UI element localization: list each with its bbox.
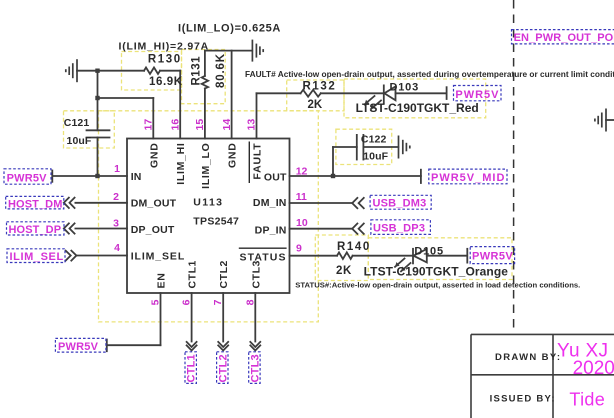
svg-text:7: 7 (212, 299, 224, 305)
svg-text:FAULT# Active-low open-drain o: FAULT# Active-low open-drain output, ass… (245, 69, 614, 79)
svg-text:10uF: 10uF (67, 135, 92, 147)
svg-text:2K: 2K (336, 265, 352, 277)
svg-text:ILIM_SEL: ILIM_SEL (131, 251, 185, 263)
svg-text:2: 2 (113, 191, 119, 203)
svg-text:13: 13 (246, 119, 258, 131)
svg-text:EN: EN (156, 273, 168, 289)
svg-text:DP_IN: DP_IN (255, 224, 287, 236)
svg-text:PWR5V: PWR5V (472, 251, 513, 263)
svg-text:ILIM_HI: ILIM_HI (175, 143, 187, 185)
svg-text:D105: D105 (414, 246, 444, 258)
svg-text:6: 6 (181, 299, 193, 305)
svg-text:Tide: Tide (569, 390, 605, 410)
svg-text:CTL1: CTL1 (186, 354, 198, 382)
svg-text:PWR5V: PWR5V (7, 173, 48, 185)
svg-text:4: 4 (114, 242, 120, 254)
svg-text:CTL2: CTL2 (218, 260, 230, 288)
svg-text:R132: R132 (303, 81, 337, 93)
svg-text:USB_DM3: USB_DM3 (373, 198, 427, 210)
svg-text:CTL1: CTL1 (187, 260, 199, 288)
svg-text:17: 17 (143, 119, 155, 131)
svg-text:USB_DP3: USB_DP3 (373, 223, 425, 235)
svg-text:GND: GND (227, 143, 239, 168)
svg-text:ILIM_SEL: ILIM_SEL (10, 251, 64, 263)
svg-text:1: 1 (114, 163, 120, 175)
svg-text:2K: 2K (308, 99, 323, 111)
svg-text:LTST-C190TGKT_Orange: LTST-C190TGKT_Orange (364, 265, 509, 279)
svg-text:DP_OUT: DP_OUT (131, 224, 175, 236)
svg-text:CTL2: CTL2 (217, 354, 229, 382)
svg-text:16: 16 (169, 119, 181, 131)
svg-text:HOST_DP: HOST_DP (9, 224, 62, 236)
svg-text:OUT: OUT (264, 172, 287, 184)
svg-text:DRAWN BY:: DRAWN BY: (495, 352, 561, 363)
svg-text:12: 12 (296, 166, 308, 178)
svg-text:15: 15 (194, 119, 206, 131)
svg-text:I(LIM_HI)=2.97A: I(LIM_HI)=2.97A (119, 41, 209, 53)
svg-text:5: 5 (150, 299, 162, 305)
svg-text:IN: IN (131, 171, 142, 183)
svg-text:CTL3: CTL3 (249, 354, 261, 382)
svg-text:STATUS#:Active-low open-drain: STATUS#:Active-low open-drain output, as… (295, 281, 580, 290)
svg-text:EN_PWR_OUT_PORT: EN_PWR_OUT_PORT (514, 32, 614, 44)
svg-text:I(LIM_LO)=0.625A: I(LIM_LO)=0.625A (178, 23, 281, 35)
svg-text:C122: C122 (361, 134, 387, 146)
svg-text:U113: U113 (193, 197, 223, 209)
svg-text:16.9K: 16.9K (149, 76, 183, 88)
svg-text:R130: R130 (148, 54, 182, 66)
svg-text:80.6K: 80.6K (215, 53, 227, 88)
svg-text:D103: D103 (390, 82, 420, 94)
svg-text:R140: R140 (337, 241, 371, 253)
svg-text:9: 9 (296, 243, 302, 255)
svg-text:HOST_DM: HOST_DM (8, 199, 62, 211)
svg-text:R131: R131 (191, 56, 203, 86)
svg-text:11: 11 (296, 191, 307, 203)
svg-text:2020: 2020 (573, 358, 614, 379)
svg-text:8: 8 (244, 299, 256, 305)
svg-text:DM_OUT: DM_OUT (131, 198, 177, 210)
svg-text:14: 14 (221, 119, 233, 131)
svg-text:STATUS: STATUS (240, 252, 287, 264)
svg-text:DM_IN: DM_IN (253, 197, 287, 209)
svg-text:FAULT: FAULT (252, 143, 264, 180)
svg-text:PWR5V_MID: PWR5V_MID (431, 172, 505, 184)
svg-text:PWR5V: PWR5V (58, 341, 99, 353)
svg-text:10uF: 10uF (363, 151, 388, 163)
svg-text:PWR5V: PWR5V (455, 89, 499, 101)
svg-text:ISSUED BY:: ISSUED BY: (490, 394, 556, 405)
svg-text:3: 3 (113, 218, 119, 230)
svg-text:ILIM_LO: ILIM_LO (200, 143, 212, 189)
svg-text:TPS2547: TPS2547 (193, 216, 239, 228)
svg-text:CTL3: CTL3 (250, 260, 262, 288)
svg-text:GND: GND (148, 143, 160, 168)
svg-text:LTST-C190TGKT_Red: LTST-C190TGKT_Red (356, 101, 479, 115)
svg-text:10: 10 (296, 217, 308, 229)
svg-text:C121: C121 (64, 117, 90, 129)
